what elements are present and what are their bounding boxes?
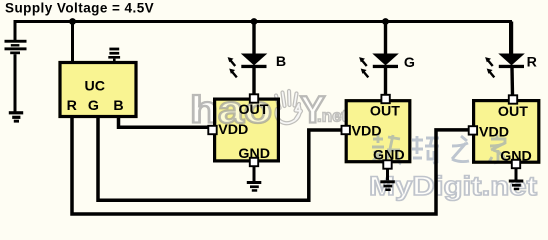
pin VDD U1 [208, 126, 216, 134]
LED G (D2) [359, 22, 415, 96]
svg-text:B: B [113, 98, 123, 114]
ground: driver U3 [509, 168, 524, 190]
ground: driver U2 [380, 169, 395, 191]
hand glyph [276, 91, 301, 123]
pin OUT U3 [509, 95, 517, 103]
pin OUT U2 [381, 95, 389, 103]
svg-text:MyDigit.net: MyDigit.net [369, 171, 537, 201]
LED driver U3 outline and labels [469, 95, 539, 168]
wire: UC pin B to driver 1 VDD [119, 115, 211, 127]
LED driver U2 outline and labels [342, 95, 410, 169]
svg-text:OUT: OUT [370, 104, 400, 120]
LED driver U1 outline and labels [208, 94, 278, 166]
battery BT1 [5, 40, 27, 54]
svg-text:.net: .net [317, 107, 348, 126]
LED driver U1 body fill [213, 98, 280, 163]
wire: top supply rail [15, 22, 511, 54]
svg-text:UC: UC [85, 78, 106, 94]
svg-text:VDD: VDD [218, 122, 248, 138]
svg-text:Supply Voltage = 4.5V: Supply Voltage = 4.5V [5, 1, 154, 16]
svg-text:R: R [67, 98, 77, 114]
wire: battery to ground [14, 54, 17, 111]
svg-text:VDD: VDD [352, 124, 382, 140]
pin VDD U2 [342, 126, 350, 134]
char ma [412, 136, 439, 163]
LED B (D1) [228, 22, 287, 95]
char shu [372, 135, 401, 164]
LED R (D3) [485, 22, 537, 96]
microcontroller UC body fill [58, 61, 137, 118]
svg-text:G: G [404, 55, 415, 71]
watermark: haoBY.net (embossed gray) [190, 90, 348, 132]
ground: driver U1 [247, 166, 261, 192]
node: junction at LED B feed [251, 18, 258, 25]
svg-text:R: R [527, 55, 537, 71]
wire: UC pin G to driver 2 VDD [98, 115, 342, 200]
ground: battery [9, 111, 23, 122]
wire: UC pin R to driver 3 VDD [72, 115, 469, 214]
microcontroller UC outline and labels [60, 63, 136, 117]
char zhi [452, 136, 469, 162]
pin OUT U1 [250, 94, 258, 102]
char jia [489, 135, 507, 163]
pin GND U3 [512, 160, 520, 168]
node: junction at LED G feed [382, 18, 389, 25]
watermark: Chinese characters (hand-drawn strokes) [372, 135, 507, 164]
svg-text:VDD: VDD [479, 125, 509, 141]
power symbol above UC [108, 48, 120, 63]
svg-text:OUT: OUT [498, 104, 528, 120]
pin VDD U3 [469, 126, 477, 134]
LED driver U3 body fill [472, 99, 540, 164]
wire: rail to UC top [71, 22, 74, 63]
LED driver U2 body fill [345, 99, 412, 163]
pin GND U1 [250, 158, 258, 166]
node: junction at UC feed [69, 18, 76, 25]
pin GND U2 [383, 160, 391, 168]
svg-text:OUT: OUT [239, 102, 269, 118]
svg-text:B: B [276, 54, 286, 70]
svg-text:G: G [88, 98, 99, 114]
